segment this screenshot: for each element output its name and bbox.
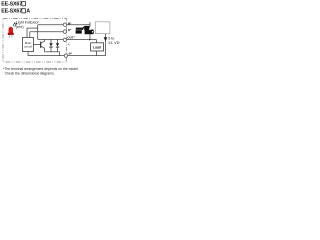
- svg-text:OUT*: OUT*: [67, 35, 75, 39]
- svg-text:A: A: [26, 9, 30, 15]
- svg-text:5 to: 5 to: [108, 37, 114, 41]
- svg-text:Load: Load: [93, 45, 101, 49]
- svg-text:EE-SX67: EE-SX67: [1, 9, 22, 15]
- svg-text:circuit: circuit: [24, 44, 32, 48]
- svg-text:Check the dimensional diagrams: Check the dimensional diagrams.: [5, 71, 55, 75]
- svg-text:EE-SX67: EE-SX67: [1, 2, 22, 8]
- svg-text:24 VDC: 24 VDC: [108, 41, 120, 45]
- svg-text:(red): (red): [16, 25, 24, 29]
